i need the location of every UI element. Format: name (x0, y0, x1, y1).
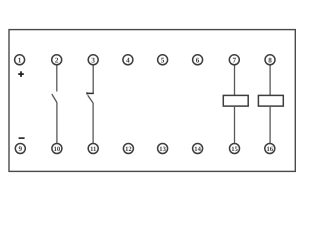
coil A1 (223, 95, 248, 106)
wire contact to pin11 (92, 103, 94, 144)
wire pin7 to coil A1 (234, 65, 236, 95)
terminal 1 (15, 55, 25, 65)
svg-text:5: 5 (161, 56, 165, 64)
terminal 13 (158, 144, 168, 154)
svg-text:15: 15 (231, 146, 238, 153)
svg-text:16: 16 (267, 146, 274, 153)
wire coil A1 to pin15 (234, 106, 236, 143)
terminal 9 (15, 144, 25, 154)
relay body outline (9, 30, 295, 172)
terminal 4 (123, 55, 133, 65)
contact K2 arrowhead (86, 92, 89, 95)
svg-text:10: 10 (54, 146, 61, 153)
svg-text:11: 11 (90, 146, 96, 153)
svg-text:14: 14 (194, 146, 201, 153)
svg-text:4: 4 (126, 56, 130, 64)
terminal 11 (88, 144, 98, 154)
terminal 14 (193, 144, 203, 154)
terminal 8 (265, 55, 275, 65)
terminal 3 (88, 55, 98, 65)
terminal 6 (193, 55, 203, 65)
switch K1 blade (52, 94, 57, 103)
svg-text:7: 7 (233, 56, 237, 64)
minus polarity label (19, 137, 25, 139)
terminal 2 (52, 55, 62, 65)
plus polarity label (18, 71, 24, 77)
svg-text:9: 9 (19, 145, 23, 153)
svg-text:2: 2 (55, 56, 59, 64)
svg-text:13: 13 (159, 146, 166, 153)
terminal 5 (158, 55, 168, 65)
switch K2 blade (88, 95, 93, 103)
wire coil A2 to pin16 (269, 106, 271, 143)
wire pin8 to coil A2 (269, 65, 271, 95)
svg-text:6: 6 (196, 56, 200, 64)
terminal 10 (52, 144, 62, 154)
wire pin2 to switch (56, 65, 58, 91)
contact K2 bar (87, 92, 94, 94)
wire switch to pin10 (56, 102, 58, 143)
svg-text:8: 8 (268, 56, 272, 64)
terminal 15 (230, 144, 240, 154)
svg-text:1: 1 (18, 56, 22, 64)
svg-text:3: 3 (91, 56, 95, 64)
terminal 12 (123, 144, 133, 154)
svg-text:12: 12 (125, 146, 132, 153)
wire pin3 to contact (92, 65, 94, 93)
coil A2 (258, 95, 283, 106)
terminal 7 (229, 55, 239, 65)
terminal 16 (265, 144, 275, 154)
